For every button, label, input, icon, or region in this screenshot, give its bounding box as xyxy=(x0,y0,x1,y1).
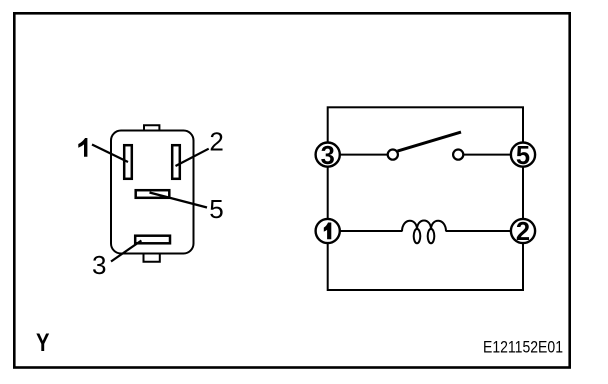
svg-text:2: 2 xyxy=(209,127,223,157)
svg-text:2: 2 xyxy=(516,218,530,246)
svg-text:5: 5 xyxy=(516,142,530,170)
svg-text:E121152E01: E121152E01 xyxy=(483,338,563,357)
svg-text:3: 3 xyxy=(321,142,335,170)
svg-text:3: 3 xyxy=(92,250,106,280)
svg-text:Y: Y xyxy=(36,329,50,357)
svg-text:5: 5 xyxy=(209,194,223,224)
